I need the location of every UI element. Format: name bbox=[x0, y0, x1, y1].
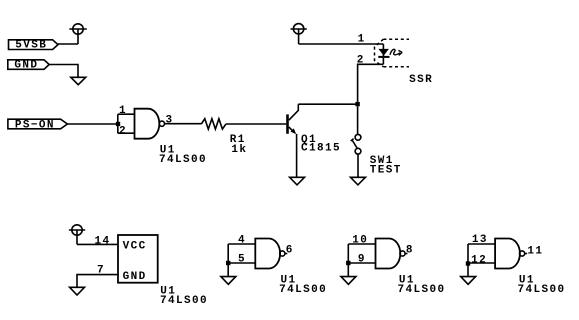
bubble U1C bbox=[400, 251, 405, 256]
junction (U1D inputs) bbox=[466, 261, 470, 265]
junction (U1C inputs) bbox=[346, 261, 350, 265]
svg-text:1: 1 bbox=[358, 34, 366, 46]
wire power to SSR pin 1 bbox=[299, 43, 384, 45]
SSR light arrow bbox=[390, 49, 402, 55]
wire SSR pin 2 to junction bbox=[358, 64, 384, 102]
ground (SW1) bbox=[351, 177, 366, 185]
flag GND bbox=[8, 60, 49, 72]
svg-text:12: 12 bbox=[471, 255, 487, 267]
nand gate U1C body bbox=[376, 239, 401, 269]
flag 5VSB bbox=[9, 40, 59, 52]
svg-text:VCC: VCC bbox=[123, 240, 147, 252]
wire gate output to R1 bbox=[165, 123, 202, 125]
svg-text:PS−ON: PS−ON bbox=[15, 119, 55, 131]
power symbol +5V (U1 VCC) bbox=[69, 225, 85, 245]
ground (U1D) bbox=[461, 277, 476, 285]
wire U1C output stub bbox=[405, 253, 407, 255]
svg-text:13: 13 bbox=[472, 234, 488, 246]
transistor Q1 bbox=[286, 104, 298, 134]
junction (U1B inputs) bbox=[226, 261, 230, 265]
ground (U1 pin 7) bbox=[70, 287, 85, 295]
wire Q1 emitter to ground bbox=[296, 134, 298, 177]
wire R1 to Q1 base bbox=[226, 123, 286, 125]
svg-text:5: 5 bbox=[238, 253, 246, 265]
svg-text:74LS00: 74LS00 bbox=[160, 295, 208, 307]
svg-text:2: 2 bbox=[119, 126, 127, 138]
svg-text:C1815: C1815 bbox=[301, 143, 341, 155]
junction (gate input tie) bbox=[116, 122, 120, 126]
wire gate U1B inputs bbox=[228, 244, 255, 263]
svg-text:SSR: SSR bbox=[409, 74, 433, 86]
svg-text:1: 1 bbox=[119, 105, 127, 117]
wire gate U1C inputs bbox=[348, 244, 375, 263]
junction (collector/SSR/SW1) bbox=[355, 102, 359, 106]
chip U1 power block bbox=[118, 235, 158, 283]
wire U1C to ground bbox=[347, 263, 349, 277]
svg-text:TEST: TEST bbox=[370, 164, 402, 176]
wire gate U1D inputs bbox=[468, 244, 495, 263]
svg-text:74LS00: 74LS00 bbox=[518, 284, 566, 296]
resistor R1 bbox=[201, 119, 226, 129]
nand gate U1A body bbox=[135, 109, 160, 139]
wire 5VSB flag to power bbox=[58, 43, 78, 45]
bubble U1A bbox=[159, 121, 164, 126]
switch SW1 bbox=[351, 134, 361, 154]
bubble U1B bbox=[280, 251, 285, 256]
svg-text:8: 8 bbox=[406, 244, 414, 256]
svg-text:3: 3 bbox=[166, 115, 174, 127]
wire U1D to ground bbox=[467, 263, 469, 277]
wire GND flag to ground bbox=[49, 65, 78, 78]
power symbol +5VSB (top-left) bbox=[69, 24, 87, 44]
ground (U1B) bbox=[221, 277, 236, 285]
flag PS-ON bbox=[8, 119, 68, 131]
wire U1B output stub bbox=[285, 253, 287, 255]
nand gate U1B body bbox=[255, 239, 280, 269]
svg-text:GND: GND bbox=[123, 271, 147, 283]
SSR dashed package outline bbox=[375, 39, 410, 67]
wire PS-ON to gate inputs bbox=[67, 123, 117, 125]
ground (GND flag) bbox=[71, 77, 86, 84]
svg-text:74LS00: 74LS00 bbox=[159, 154, 207, 166]
svg-text:9: 9 bbox=[358, 253, 366, 265]
svg-text:4: 4 bbox=[238, 235, 246, 247]
ground (U1C) bbox=[341, 277, 356, 285]
wire U1D output stub bbox=[525, 253, 527, 255]
svg-text:10: 10 bbox=[352, 235, 368, 247]
svg-text:5VSB: 5VSB bbox=[15, 40, 47, 52]
power symbol +5V (SSR) bbox=[291, 24, 307, 44]
wire pin 7 to ground bbox=[77, 275, 118, 288]
wire SW1 to ground bbox=[357, 154, 359, 177]
wire power to pin 14 bbox=[77, 243, 118, 245]
ground (Q1 emitter) bbox=[290, 177, 305, 185]
wire junction to SW1 bbox=[357, 106, 359, 134]
wire input tie bus bbox=[118, 114, 135, 133]
svg-text:GND: GND bbox=[14, 60, 38, 72]
svg-text:11: 11 bbox=[527, 245, 543, 257]
SSR LED bbox=[378, 49, 389, 57]
nand gate U1D body bbox=[495, 239, 520, 269]
wire Q1 collector to junction bbox=[298, 103, 357, 105]
wire U1B to ground bbox=[227, 263, 229, 277]
svg-text:74LS00: 74LS00 bbox=[279, 284, 327, 296]
bubble U1D bbox=[520, 251, 525, 256]
svg-text:74LS00: 74LS00 bbox=[398, 284, 446, 296]
svg-text:1k: 1k bbox=[231, 144, 247, 156]
svg-text:14: 14 bbox=[95, 235, 111, 247]
SSR input LED branch bbox=[382, 44, 384, 64]
svg-text:6: 6 bbox=[286, 244, 294, 256]
